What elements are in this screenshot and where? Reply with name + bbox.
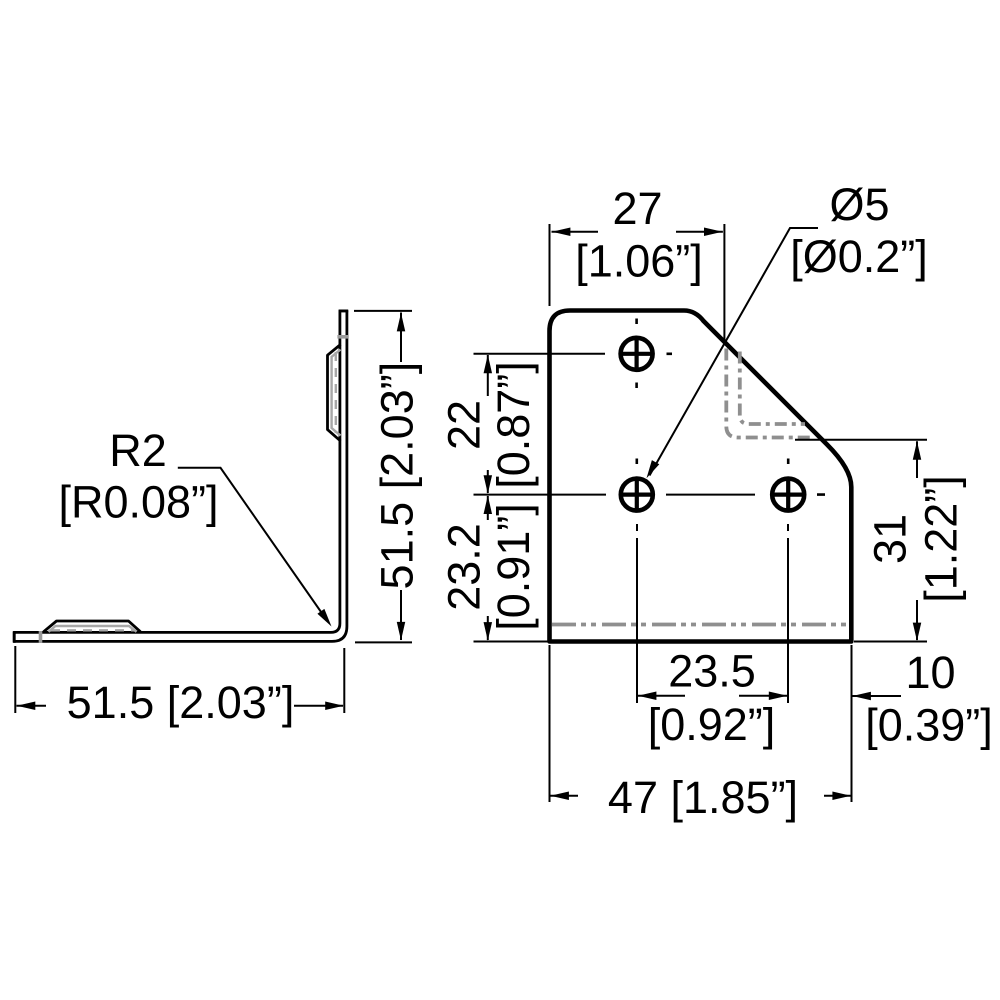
svg-text:47 [1.85”]: 47 [1.85”] (608, 772, 798, 823)
dim line 10 (852, 695, 901, 697)
ext line bottom edge extended left (474, 641, 549, 643)
dim 22 arrow down (484, 475, 493, 494)
dim 51.5 vertical arrow down (397, 622, 406, 641)
label 22 / [0.87"] rotated (439, 361, 540, 489)
dim line 51.5 vertical segments (400, 313, 402, 641)
svg-text:R2: R2 (109, 425, 167, 476)
ext line 27 right (723, 224, 725, 343)
dim 23.5 arrow left (638, 691, 657, 700)
dim 31 arrow up (913, 441, 922, 460)
rib on vertical leg (black outline) (328, 345, 341, 442)
dim 22 arrow up (484, 355, 493, 374)
svg-text:23.5: 23.5 (668, 646, 756, 697)
leader R2 (178, 468, 327, 621)
phantom flap line outer (726, 349, 812, 438)
dim 47 arrow right (832, 791, 851, 800)
svg-text:51.5 [2.03”]: 51.5 [2.03”] (371, 362, 422, 590)
dim 27 arrow right (704, 227, 723, 236)
svg-text:[0.87”]: [0.87”] (488, 361, 539, 489)
dim line 27 segments (552, 231, 723, 233)
svg-text:[Ø0.2”]: [Ø0.2”] (790, 231, 928, 282)
dim line 22 segments (487, 355, 489, 640)
ext line 23.5 right below hole (787, 524, 789, 703)
leader diameter arrowhead (643, 460, 659, 480)
ext line 47 left (549, 645, 551, 802)
ext line 27 left (plate edge extended up) (549, 224, 551, 306)
svg-text:10: 10 (905, 647, 955, 698)
profile left end cap (13, 631, 16, 643)
front view plate outline (550, 311, 852, 642)
svg-text:27: 27 (612, 183, 662, 234)
dim 51.5 horizontal arrow right (325, 702, 344, 711)
hole top cross (619, 336, 654, 371)
rib on horizontal leg gray hatch dashes (51, 629, 134, 631)
dim line 23.5 segments (638, 695, 788, 697)
hole mid-left cross (619, 477, 654, 512)
svg-text:[0.39”]: [0.39”] (865, 700, 993, 751)
hole mid-right circle (772, 479, 804, 511)
svg-text:[R0.08”]: [R0.08”] (58, 477, 218, 528)
leader R2 arrowhead (317, 609, 335, 629)
hole top centerline dashes (637, 319, 672, 389)
svg-text:22: 22 (439, 400, 490, 450)
ext line 22 top (hole level) (474, 353, 606, 355)
label 31 / [1.22"] rotated (865, 475, 967, 603)
ext line side-vertical bottom (355, 641, 412, 643)
ext line side-vertical top (354, 310, 412, 312)
ext line 10 right (right edge extended down) (851, 645, 853, 802)
svg-text:[1.22”]: [1.22”] (916, 475, 967, 603)
side view L-profile (14, 311, 347, 642)
rib on horizontal leg inner gray line (49, 626, 137, 632)
ext line 31 bottom (bottom edge extended right) (854, 641, 927, 643)
hole mid-left centerline dashes (635, 459, 638, 465)
ext line mid holes level left (474, 494, 607, 496)
svg-text:Ø5: Ø5 (829, 179, 889, 230)
ext line 23.5 left below hole (636, 524, 638, 703)
centerline between mid holes (666, 494, 755, 496)
dim line 47 segments (550, 795, 851, 797)
phantom flap line inner (740, 352, 805, 425)
label 23.2 / [0.91"] rotated (439, 503, 540, 631)
svg-text:[0.92”]: [0.92”] (648, 699, 776, 750)
hole mid-right centerline dashes (788, 459, 825, 495)
dim 23.2 arrow down (484, 622, 493, 641)
leader diameter 5 (650, 228, 819, 476)
dim 51.5 vertical arrow up (397, 313, 406, 332)
ext line side-horizontal left (14, 646, 16, 713)
svg-text:23.2: 23.2 (439, 523, 490, 611)
hole top circle (621, 338, 653, 370)
dim 23.2 arrow up (484, 496, 493, 515)
hole mid-left circle (621, 479, 653, 511)
svg-text:[1.06”]: [1.06”] (575, 236, 703, 287)
gray tick across vertical leg (337, 335, 348, 339)
dim 51.5 horizontal arrow left (17, 702, 36, 711)
rib on vertical leg inner gray line (332, 350, 341, 436)
svg-text:51.5 [2.03”]: 51.5 [2.03”] (67, 677, 295, 728)
rib on horizontal leg (black outline) (44, 621, 141, 632)
dim line 31 segments (916, 441, 918, 640)
dim 10 arrow left (852, 692, 871, 701)
phantom bend line bottom (552, 623, 849, 627)
dim 27 arrow left (552, 227, 571, 236)
dim 47 arrow left (550, 791, 569, 800)
profile top cap (339, 309, 349, 312)
dim line 51.5 horizontal segments (17, 705, 344, 707)
ext line 31 top (795, 439, 927, 441)
gray tick across horizontal leg (39, 631, 43, 643)
svg-text:31: 31 (865, 514, 916, 564)
hole mid-right cross (771, 477, 806, 512)
dim 31 arrow down (913, 623, 922, 642)
dim 23.5 arrow right (769, 691, 788, 700)
ext line side-horizontal right (343, 648, 345, 713)
svg-text:[0.91”]: [0.91”] (488, 503, 539, 631)
rib on vertical leg gray hatch dashes (335, 352, 337, 433)
